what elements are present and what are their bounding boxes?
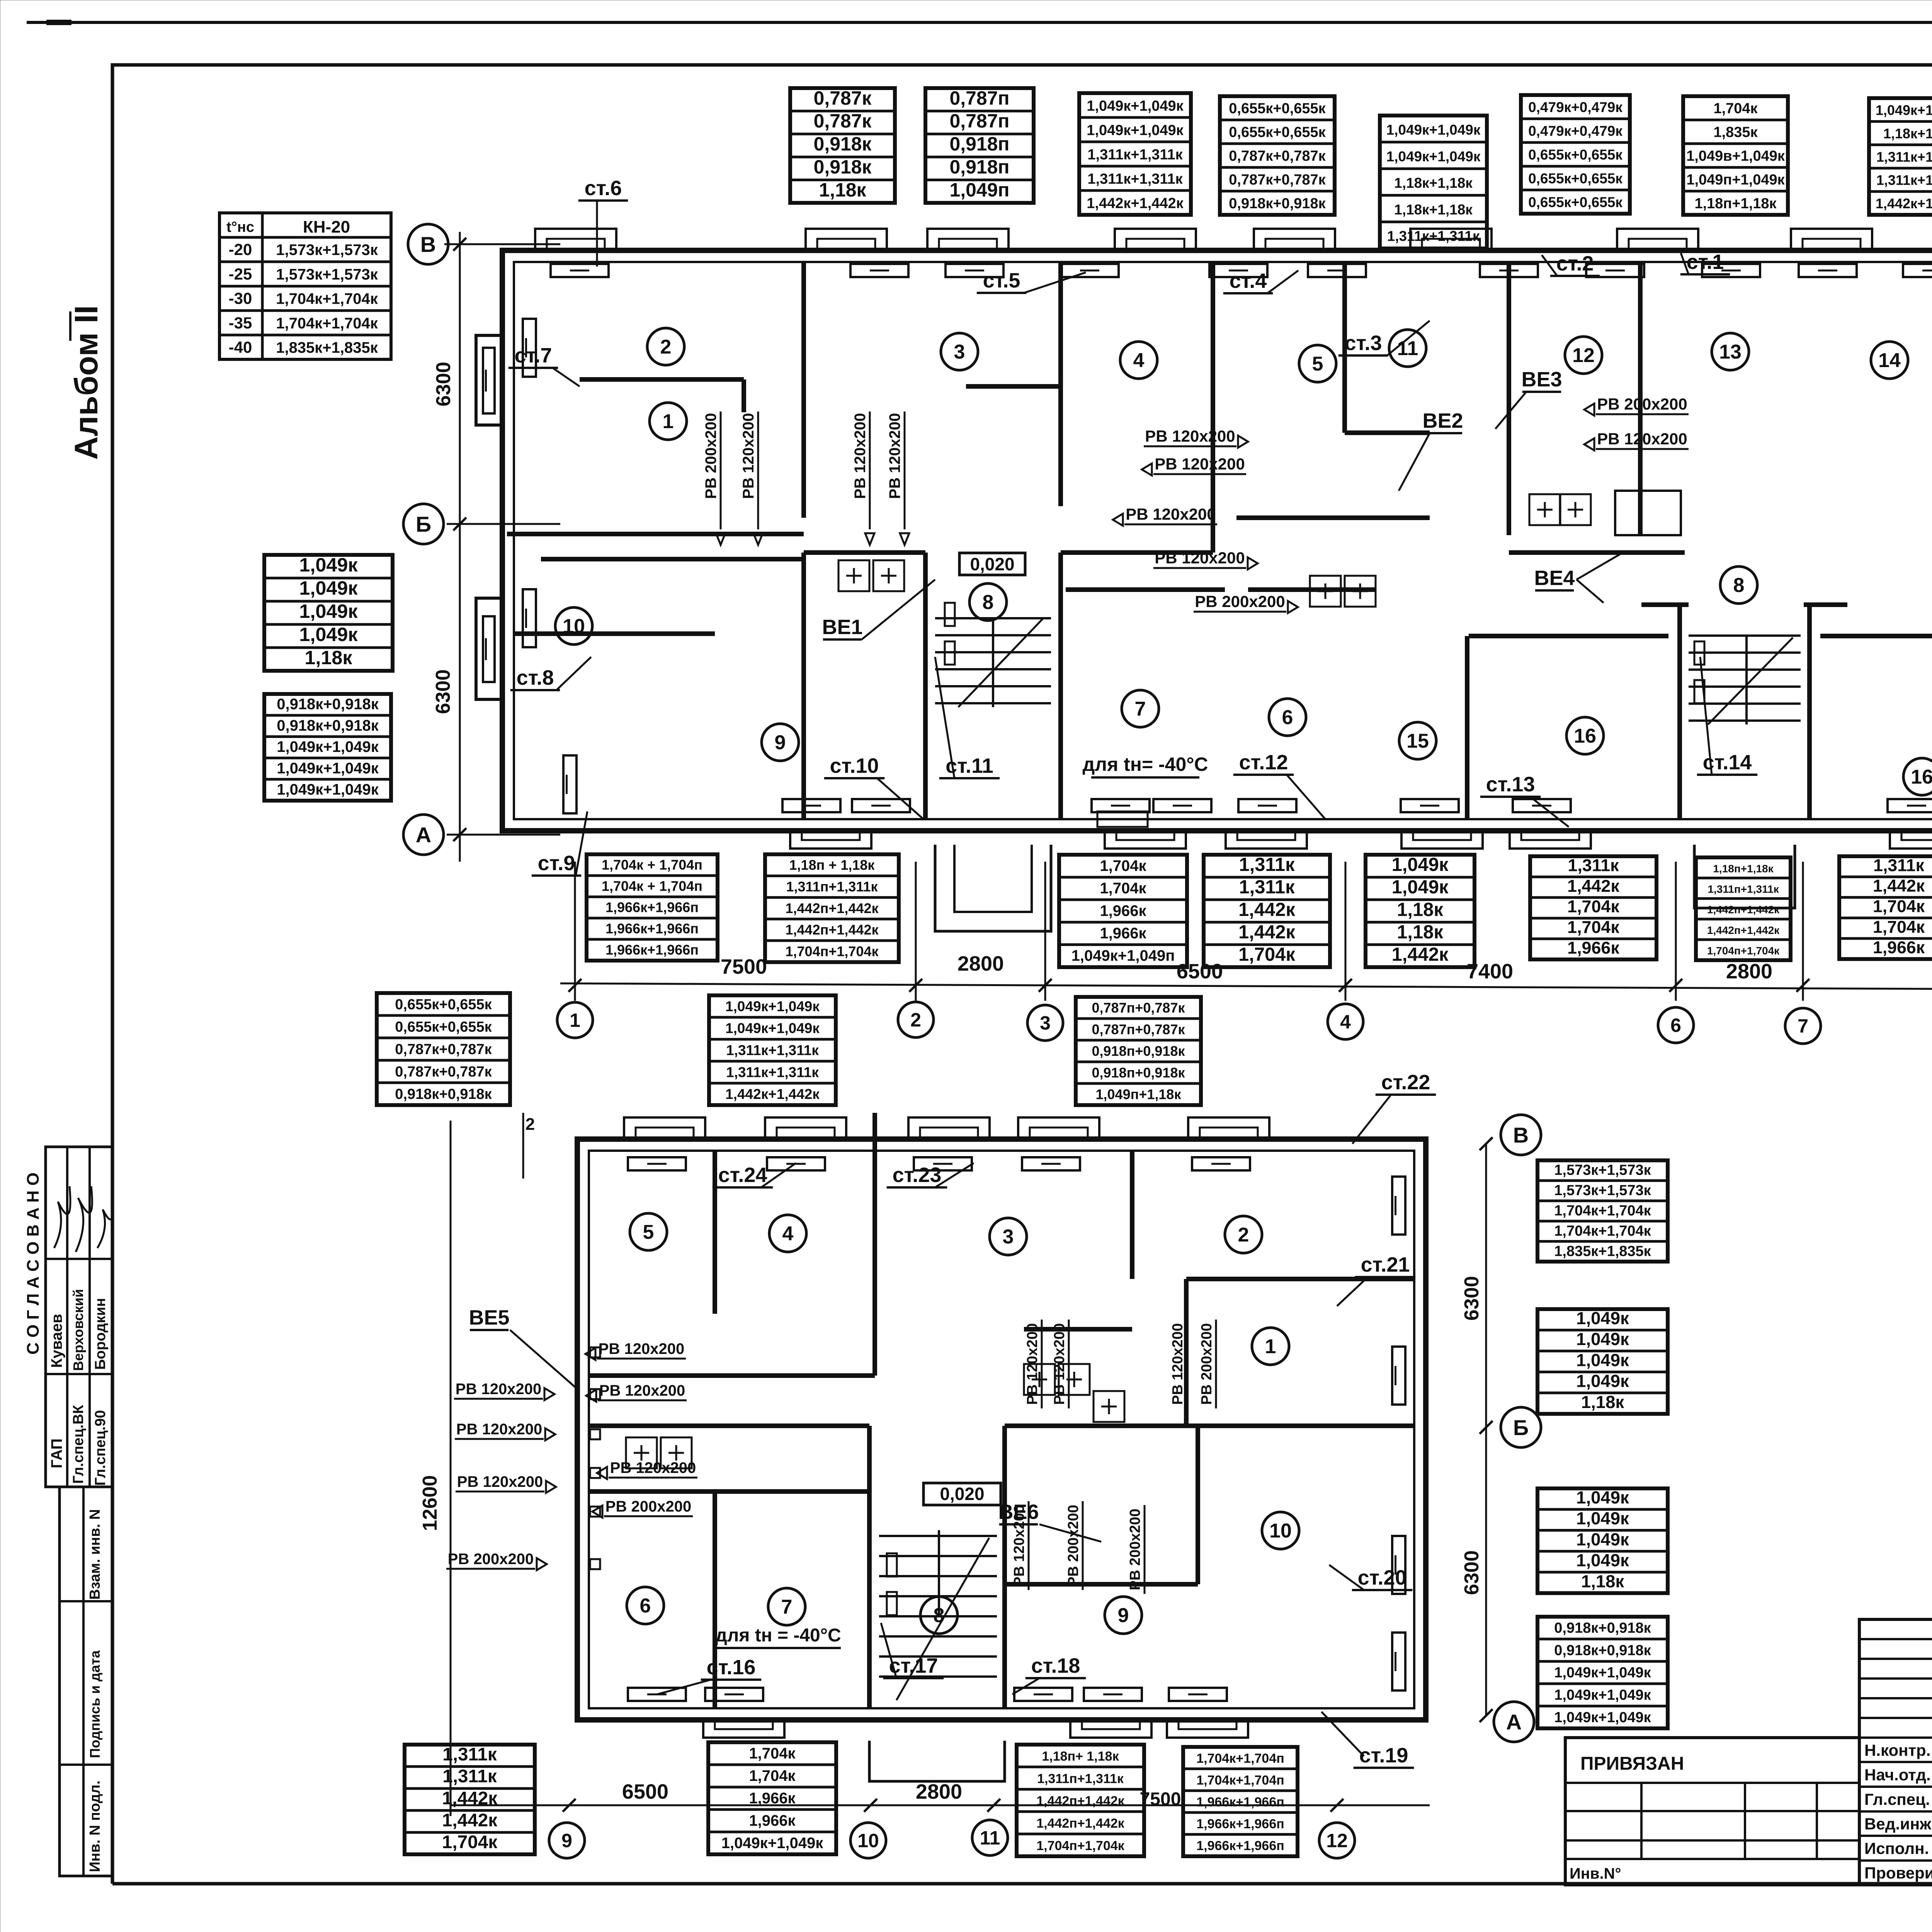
stack st.12 bbox=[1233, 751, 1325, 819]
vent BE5 lower bbox=[469, 1306, 580, 1391]
svg-text:РВ 200х200: РВ 200х200 bbox=[1127, 1509, 1143, 1590]
lower room 2 bbox=[1225, 1216, 1262, 1253]
svg-text:Гл.спец.90: Гл.спец.90 bbox=[92, 1410, 109, 1486]
stack st.10 bbox=[824, 754, 923, 819]
upper interior wall bbox=[923, 553, 928, 819]
svg-text:6300: 6300 bbox=[1461, 1276, 1483, 1321]
table TQ 1,311k bbox=[1839, 856, 1932, 959]
stack st.7 bbox=[509, 344, 580, 386]
svg-text:1,049к: 1,049к bbox=[299, 554, 358, 576]
svg-text:8: 8 bbox=[934, 1604, 945, 1627]
svg-text:1,311п+1,311к: 1,311п+1,311к bbox=[1708, 883, 1779, 895]
svg-text:1,442к: 1,442к bbox=[1567, 876, 1619, 896]
lower interior wall bbox=[1005, 1582, 1198, 1587]
upper window niche top bbox=[1115, 229, 1196, 250]
upper window niche bottom bbox=[1890, 831, 1932, 849]
radiator bbox=[1586, 264, 1644, 277]
lower window niche bottom bbox=[703, 1720, 784, 1738]
svg-text:6: 6 bbox=[1282, 706, 1293, 729]
stair flight upper-left bbox=[935, 603, 1051, 707]
svg-text:14: 14 bbox=[1878, 349, 1901, 372]
svg-text:Исполн.: Исполн. bbox=[1864, 1839, 1929, 1857]
svg-text:ст.20: ст.20 bbox=[1358, 1566, 1407, 1589]
lower plan outer wall bbox=[577, 1139, 1426, 1720]
svg-text:ВЕ5: ВЕ5 bbox=[469, 1306, 509, 1329]
axis stem bbox=[915, 862, 917, 1001]
upper interior wall bbox=[1061, 550, 1213, 555]
svg-text:12600: 12600 bbox=[419, 1475, 441, 1531]
svg-text:РВ 120х200: РВ 120х200 bbox=[457, 1473, 543, 1490]
radiator bbox=[1513, 799, 1571, 812]
radiator bbox=[852, 799, 910, 812]
axis circle A left bbox=[403, 815, 466, 855]
svg-text:1,704к+1,704п: 1,704к+1,704п bbox=[1196, 1751, 1284, 1766]
svg-text:ВЕ4: ВЕ4 bbox=[1534, 566, 1575, 590]
radiator bbox=[1092, 799, 1150, 812]
table V1 1,573 bbox=[1537, 1160, 1668, 1262]
svg-text:2: 2 bbox=[526, 1115, 535, 1134]
dim tick lower bbox=[864, 1799, 877, 1812]
bay window left bottom bbox=[476, 598, 502, 699]
svg-text:РВ 120х200: РВ 120х200 bbox=[1145, 427, 1235, 445]
radiator bbox=[767, 1157, 825, 1170]
svg-text:РВ 120х200: РВ 120х200 bbox=[886, 413, 903, 499]
stack st.19 bbox=[1321, 1712, 1414, 1768]
svg-text:0,918к+0,918к: 0,918к+0,918к bbox=[277, 696, 379, 713]
svg-text:1,442к: 1,442к bbox=[1392, 944, 1449, 965]
svg-text:15: 15 bbox=[1406, 730, 1429, 752]
table TE 1,049 bbox=[1380, 116, 1487, 248]
upper window niche top bbox=[1791, 229, 1872, 250]
svg-text:РВ 120х200: РВ 120х200 bbox=[456, 1421, 542, 1438]
svg-text:4: 4 bbox=[1133, 349, 1145, 372]
svg-text:1,966к: 1,966к bbox=[1100, 925, 1146, 942]
svg-text:1,966к: 1,966к bbox=[749, 1790, 796, 1807]
svg-text:1,049к+1,049к: 1,049к+1,049к bbox=[1554, 1709, 1651, 1726]
stack st.24 bbox=[713, 1163, 796, 1187]
axis circle B left bbox=[408, 224, 466, 264]
svg-text:0,655к+0,655к: 0,655к+0,655к bbox=[395, 1019, 492, 1035]
svg-text:ст.8: ст.8 bbox=[517, 666, 554, 689]
lower interior wall bbox=[1184, 1279, 1189, 1426]
svg-text:1,442к+1,442к: 1,442к+1,442к bbox=[725, 1086, 820, 1102]
axis 2 bbox=[898, 1002, 934, 1037]
svg-text:РВ 120х200: РВ 120х200 bbox=[599, 1382, 685, 1399]
svg-text:7: 7 bbox=[781, 1596, 793, 1618]
table T2 1,049 bbox=[264, 554, 393, 671]
svg-text:1,442п+1,442к: 1,442п+1,442к bbox=[1036, 1794, 1125, 1808]
upper interior wall bbox=[580, 377, 744, 382]
svg-text:ст.13: ст.13 bbox=[1486, 773, 1535, 796]
radiator bbox=[1238, 799, 1296, 812]
svg-text:1,966к+1,966п: 1,966к+1,966п bbox=[605, 942, 699, 958]
radiator bbox=[914, 1157, 972, 1170]
svg-text:13: 13 bbox=[1719, 341, 1742, 363]
table V2 1,049k bbox=[1537, 1308, 1668, 1414]
svg-text:РВ 120х200: РВ 120х200 bbox=[1011, 1505, 1027, 1586]
vent BE3 bbox=[1495, 368, 1562, 429]
svg-text:РВ 200х200: РВ 200х200 bbox=[702, 413, 719, 499]
lower room 10 bbox=[1262, 1512, 1299, 1549]
fixture mark bbox=[1345, 576, 1376, 607]
svg-text:1,049к: 1,049к bbox=[1576, 1551, 1629, 1570]
upper interior wall bbox=[1236, 515, 1430, 520]
lower room 7 bbox=[768, 1588, 805, 1625]
lower interior wall bbox=[1196, 1426, 1200, 1584]
svg-text:1,704к: 1,704к bbox=[1100, 880, 1146, 897]
svg-text:1,704к: 1,704к bbox=[1567, 896, 1619, 916]
svg-text:1,311к+1,311к: 1,311к+1,311к bbox=[1087, 171, 1183, 187]
page top border bbox=[27, 21, 1932, 24]
radiator bbox=[1401, 799, 1459, 812]
svg-text:1,573к+1,573к: 1,573к+1,573к bbox=[276, 241, 378, 259]
vent BE1 bbox=[822, 580, 935, 639]
svg-text:2: 2 bbox=[660, 336, 672, 358]
table U1 0,655 bbox=[377, 993, 510, 1105]
svg-text:1,704к+1,704к: 1,704к+1,704к bbox=[1554, 1203, 1651, 1219]
svg-text:Подпись и дата: Подпись и дата bbox=[87, 1650, 103, 1758]
stack st.6 bbox=[578, 177, 628, 267]
svg-text:7: 7 bbox=[1798, 1015, 1808, 1037]
radiator bbox=[1169, 1688, 1227, 1701]
dim line bottom lower bbox=[451, 1804, 1430, 1806]
svg-text:1,704к: 1,704к bbox=[1238, 944, 1295, 965]
svg-text:0,787к+0,787к: 0,787к+0,787к bbox=[395, 1064, 492, 1080]
table TF 0,479 bbox=[1521, 95, 1630, 214]
svg-text:РВ 200х200: РВ 200х200 bbox=[1199, 1323, 1215, 1405]
upper window niche top bbox=[1617, 229, 1698, 250]
svg-text:3: 3 bbox=[1003, 1226, 1014, 1248]
svg-text:РВ 120х200: РВ 120х200 bbox=[1170, 1323, 1186, 1405]
svg-text:1,311к+1,311к: 1,311к+1,311к bbox=[726, 1042, 819, 1058]
elevation box 0,020 upper bbox=[959, 553, 1025, 575]
svg-text:ГАП: ГАП bbox=[48, 1439, 65, 1468]
axis line left lower bbox=[450, 1121, 452, 1816]
svg-text:1,966к+1,966п: 1,966к+1,966п bbox=[605, 900, 699, 915]
svg-text:1,049к+1,049к: 1,049к+1,049к bbox=[1876, 102, 1932, 118]
dim tick bbox=[1339, 979, 1352, 992]
svg-text:0,918к: 0,918к bbox=[814, 156, 872, 178]
svg-text:1,049п: 1,049п bbox=[950, 179, 1010, 201]
radiator bbox=[1061, 264, 1119, 277]
svg-text:1,049к+1,049к: 1,049к+1,049к bbox=[1087, 98, 1184, 114]
svg-text:ст.1: ст.1 bbox=[1687, 250, 1724, 274]
upper interior wall bbox=[1820, 634, 1932, 638]
radiator bbox=[1084, 1688, 1142, 1701]
svg-text:9: 9 bbox=[1118, 1604, 1129, 1627]
svg-text:С О Г Л А С О В А Н О: С О Г Л А С О В А Н О bbox=[24, 1172, 43, 1354]
svg-text:0,787п+0,787к: 0,787п+0,787к bbox=[1092, 1021, 1185, 1037]
stack st.22 bbox=[1352, 1071, 1436, 1144]
porch lower bbox=[869, 1741, 1005, 1781]
lower interior wall bbox=[1186, 1277, 1414, 1281]
svg-text:1,573к+1,573к: 1,573к+1,573к bbox=[1554, 1162, 1651, 1179]
porch upper-right bbox=[1694, 845, 1795, 908]
svg-text:0,787п+0,787к: 0,787п+0,787к bbox=[1092, 1000, 1185, 1015]
svg-text:1,049к+1,049к: 1,049к+1,049к bbox=[277, 781, 379, 798]
svg-text:1,049к: 1,049к bbox=[1576, 1350, 1629, 1370]
lower window niche top bbox=[1188, 1117, 1269, 1139]
svg-text:1,442п+1,442к: 1,442п+1,442к bbox=[786, 900, 879, 916]
upper interior wall bbox=[1465, 636, 1469, 819]
sidebar inventory table bbox=[60, 1487, 112, 1876]
axis circle B2 lower bbox=[1480, 1407, 1541, 1447]
upper window niche top bbox=[1254, 229, 1335, 250]
svg-text:11: 11 bbox=[980, 1827, 1000, 1849]
radiator bbox=[1392, 1347, 1405, 1405]
upper interior wall bbox=[514, 631, 715, 636]
svg-text:0,918к+0,918к: 0,918к+0,918к bbox=[1554, 1620, 1651, 1636]
svg-text:-30: -30 bbox=[229, 289, 252, 308]
radiator bbox=[563, 755, 577, 813]
lower interior wall bbox=[588, 1373, 875, 1378]
svg-text:1,966к: 1,966к bbox=[1873, 938, 1925, 957]
svg-text:РВ 120х200: РВ 120х200 bbox=[599, 1340, 684, 1357]
svg-text:1,311к+1,311к: 1,311к+1,311к bbox=[1087, 146, 1183, 163]
svg-text:ст.7: ст.7 bbox=[515, 344, 552, 367]
upper interior wall bbox=[1509, 550, 1685, 555]
svg-text:1,311п+1,311к: 1,311п+1,311к bbox=[1037, 1771, 1124, 1786]
radiator bbox=[1153, 799, 1211, 812]
svg-text:РВ 120х200: РВ 120х200 bbox=[1155, 549, 1245, 567]
svg-text:А: А bbox=[416, 823, 431, 847]
stack st.2 bbox=[1542, 252, 1600, 276]
table TC 1,049+1,049 bbox=[1079, 93, 1191, 215]
axis 6 bbox=[1658, 1007, 1694, 1043]
table TP 1,18p bbox=[1696, 857, 1791, 960]
radiator bbox=[1022, 1157, 1080, 1170]
svg-text:ст.10: ст.10 bbox=[830, 754, 879, 777]
svg-text:12: 12 bbox=[1326, 1830, 1348, 1852]
svg-text:Н.контр.: Н.контр. bbox=[1864, 1741, 1930, 1759]
svg-text:1,049п+1,049к: 1,049п+1,049к bbox=[1686, 172, 1785, 188]
svg-text:РВ 200х200: РВ 200х200 bbox=[1597, 395, 1687, 413]
room 4 bbox=[1120, 342, 1157, 379]
svg-text:ст.9: ст.9 bbox=[538, 852, 575, 875]
svg-text:1,049к+1,049к: 1,049к+1,049к bbox=[1554, 1665, 1651, 1681]
svg-text:2: 2 bbox=[1238, 1224, 1249, 1246]
svg-text:1,18п+ 1,18к: 1,18п+ 1,18к bbox=[1042, 1749, 1119, 1764]
svg-text:t°нс: t°нс bbox=[226, 219, 254, 235]
dim tick lower bbox=[563, 1799, 576, 1812]
svg-text:1,049к: 1,049к bbox=[299, 600, 358, 622]
svg-text:1,966к: 1,966к bbox=[1100, 902, 1146, 919]
upper window niche top bbox=[806, 229, 887, 250]
svg-text:0,918п+0,918к: 0,918п+0,918к bbox=[1092, 1043, 1185, 1059]
svg-text:0,918к+0,918к: 0,918к+0,918к bbox=[277, 717, 379, 734]
axis 11 lower bbox=[972, 1820, 1008, 1855]
svg-text:Гл.спец.: Гл.спец. bbox=[1864, 1790, 1930, 1808]
stack st.3 bbox=[1338, 321, 1430, 355]
svg-text:Альбом II: Альбом II bbox=[68, 305, 104, 460]
svg-text:0,479к+0,479к: 0,479к+0,479к bbox=[1528, 99, 1622, 115]
upper window niche top bbox=[535, 229, 616, 250]
svg-text:1,049п+1,18к: 1,049п+1,18к bbox=[1096, 1086, 1182, 1102]
table TL 1,704k bbox=[1059, 855, 1187, 967]
axis stem bbox=[574, 862, 576, 1001]
vent BE6 lower bbox=[998, 1500, 1101, 1542]
lower window niche top bbox=[1018, 1117, 1099, 1139]
axis 12 lower bbox=[1319, 1823, 1355, 1858]
dim line bottom upper bbox=[560, 983, 1932, 990]
stack st.20 bbox=[1329, 1565, 1412, 1590]
table TG 1,704 bbox=[1683, 96, 1788, 215]
svg-text:1,049к+1,049п: 1,049к+1,049п bbox=[1071, 947, 1175, 964]
svg-text:ст.23: ст.23 bbox=[893, 1163, 942, 1187]
svg-text:ст.6: ст.6 bbox=[585, 177, 622, 200]
svg-text:0,655к+0,655к: 0,655к+0,655к bbox=[1528, 147, 1622, 163]
svg-text:1,18к+1,18к: 1,18к+1,18к bbox=[1394, 175, 1473, 191]
svg-text:16: 16 bbox=[1574, 725, 1596, 747]
room 9 bbox=[762, 724, 799, 761]
upper interior wall bbox=[507, 532, 804, 536]
svg-text:1,704к: 1,704к bbox=[1873, 897, 1925, 916]
svg-text:1,704к+1,704п: 1,704к+1,704п bbox=[1196, 1773, 1284, 1787]
axis stem bbox=[1802, 862, 1804, 1001]
svg-text:Инв. N подл.: Инв. N подл. bbox=[87, 1781, 103, 1872]
svg-text:1,704к: 1,704к bbox=[1100, 857, 1146, 874]
lower room 4 bbox=[769, 1215, 806, 1252]
svg-text:1,049в+1,049к: 1,049в+1,049к bbox=[1686, 148, 1785, 164]
stack st.5 bbox=[977, 269, 1086, 293]
svg-text:7: 7 bbox=[1135, 698, 1146, 720]
svg-text:1,049к+1,049к: 1,049к+1,049к bbox=[1087, 122, 1184, 138]
svg-text:Б: Б bbox=[416, 512, 431, 536]
axis 1 bbox=[557, 1002, 593, 1038]
svg-text:1,049к: 1,049к bbox=[1576, 1329, 1629, 1349]
radiator bbox=[523, 319, 536, 377]
radiator bbox=[782, 799, 840, 812]
axis 7 bbox=[1785, 1008, 1821, 1044]
svg-text:1,311к: 1,311к bbox=[1873, 856, 1924, 875]
room 11a bbox=[1389, 330, 1426, 367]
svg-text:1,049к+1,049к: 1,049к+1,049к bbox=[277, 738, 379, 755]
svg-text:1,442к: 1,442к bbox=[1238, 899, 1295, 920]
svg-text:1,049к+1,049к: 1,049к+1,049к bbox=[721, 1835, 824, 1852]
svg-text:0,918к+0,918к: 0,918к+0,918к bbox=[1554, 1642, 1651, 1658]
svg-text:0,020: 0,020 bbox=[940, 1484, 984, 1504]
bath cabinet bbox=[1615, 491, 1681, 535]
svg-text:В: В bbox=[420, 232, 436, 257]
svg-text:1,442п+1,442к: 1,442п+1,442к bbox=[1036, 1816, 1125, 1831]
svg-text:1,311к+1,311к: 1,311к+1,311к bbox=[1876, 172, 1932, 188]
upper window niche bottom bbox=[1226, 831, 1307, 849]
title block staff table bbox=[1859, 1619, 1932, 1885]
upper window niche bottom bbox=[1105, 831, 1186, 849]
axis dash B bbox=[444, 243, 560, 245]
lower room 6 bbox=[627, 1587, 664, 1624]
room 8b bbox=[1720, 566, 1757, 604]
svg-text:1,704к+1,704к: 1,704к+1,704к bbox=[276, 315, 378, 332]
axis 4 bbox=[1328, 1004, 1363, 1039]
svg-text:ст.19: ст.19 bbox=[1359, 1744, 1408, 1767]
lower interior wall bbox=[1002, 1426, 1007, 1708]
svg-text:-35: -35 bbox=[229, 314, 252, 332]
svg-text:1,573к+1,573к: 1,573к+1,573к bbox=[1554, 1182, 1651, 1199]
svg-text:0,787к+0,787к: 0,787к+0,787к bbox=[1229, 172, 1326, 188]
svg-text:6500: 6500 bbox=[622, 1780, 668, 1803]
svg-text:1,311к: 1,311к bbox=[1239, 877, 1295, 898]
svg-text:1,704к: 1,704к bbox=[1713, 100, 1758, 117]
svg-text:В: В bbox=[1513, 1123, 1529, 1147]
svg-text:ст.17: ст.17 bbox=[889, 1654, 938, 1677]
dim tick bbox=[1796, 979, 1810, 992]
svg-text:ст.16: ст.16 bbox=[707, 1656, 756, 1679]
svg-text:2800: 2800 bbox=[916, 1780, 962, 1803]
svg-text:ст.12: ст.12 bbox=[1239, 751, 1288, 774]
svg-text:6300: 6300 bbox=[1461, 1550, 1483, 1595]
fixture mark bbox=[1024, 1364, 1055, 1395]
svg-text:7400: 7400 bbox=[1467, 960, 1513, 983]
svg-text:ст.22: ст.22 bbox=[1381, 1071, 1430, 1094]
lower room 1 bbox=[1252, 1328, 1289, 1365]
svg-text:для tн= -40°С: для tн= -40°С bbox=[1083, 753, 1208, 775]
svg-text:5: 5 bbox=[643, 1221, 654, 1243]
svg-text:ст.21: ст.21 bbox=[1361, 1253, 1410, 1276]
svg-text:1,049к: 1,049к bbox=[1576, 1488, 1629, 1507]
svg-text:ст.4: ст.4 bbox=[1230, 269, 1267, 293]
lower room 8 bbox=[920, 1597, 957, 1634]
upper plan outer wall bbox=[502, 250, 1932, 831]
lower interior wall bbox=[872, 1113, 877, 1376]
svg-text:1: 1 bbox=[1265, 1335, 1276, 1358]
lower window niche bottom bbox=[1070, 1720, 1151, 1738]
svg-text:1,966к: 1,966к bbox=[749, 1812, 796, 1829]
svg-text:1,704п+1,704к: 1,704п+1,704к bbox=[1036, 1838, 1125, 1853]
upper interior wall bbox=[1807, 605, 1812, 819]
svg-text:КН-20: КН-20 bbox=[303, 218, 350, 236]
room 7 bbox=[1122, 690, 1159, 727]
stack st.14 bbox=[1697, 657, 1757, 775]
svg-text:1,049к: 1,049к bbox=[1576, 1529, 1629, 1549]
table W3 1,18p bbox=[1017, 1745, 1144, 1856]
svg-text:0,787к: 0,787к bbox=[814, 87, 872, 109]
svg-text:1,442п+1,442к: 1,442п+1,442к bbox=[1707, 904, 1780, 916]
stack st.1 bbox=[1680, 250, 1730, 274]
svg-text:3: 3 bbox=[954, 341, 965, 363]
svg-text:10: 10 bbox=[857, 1830, 879, 1852]
svg-text:1,311к: 1,311к bbox=[1239, 854, 1295, 875]
svg-text:0,787п: 0,787п bbox=[950, 110, 1010, 132]
svg-text:1,049к: 1,049к bbox=[1576, 1371, 1629, 1391]
upper interior wall bbox=[1066, 587, 1225, 592]
fixture mark bbox=[1094, 1391, 1124, 1422]
room 15a bbox=[1399, 722, 1436, 759]
lower interior wall bbox=[588, 1423, 869, 1428]
svg-text:1,704к: 1,704к bbox=[1873, 918, 1925, 937]
svg-text:1,704п+1,704к: 1,704п+1,704к bbox=[1707, 945, 1780, 957]
axis circle A lower bbox=[1480, 1702, 1534, 1742]
axis stem bbox=[1044, 862, 1046, 1001]
svg-text:10: 10 bbox=[1269, 1520, 1292, 1542]
table V3 1,049k bbox=[1537, 1488, 1668, 1593]
radiator bbox=[628, 1688, 686, 1701]
table U3 0,787p bbox=[1076, 997, 1201, 1105]
upper interior wall bbox=[966, 384, 1061, 389]
svg-text:1,18п + 1,18к: 1,18п + 1,18к bbox=[789, 857, 875, 873]
svg-text:1,704п+1,704к: 1,704п+1,704к bbox=[786, 943, 879, 959]
svg-text:1,049к+1,049к: 1,049к+1,049к bbox=[1386, 148, 1481, 164]
upper interior wall bbox=[1507, 262, 1511, 535]
svg-text:1,573к+1,573к: 1,573к+1,573к bbox=[276, 266, 378, 283]
upper interior wall bbox=[1641, 602, 1689, 607]
elevation box 0,020 lower bbox=[923, 1483, 1001, 1505]
svg-text:ВЕ2: ВЕ2 bbox=[1422, 409, 1463, 432]
table U2 1,049 bbox=[709, 995, 836, 1105]
bay window left top bbox=[476, 335, 502, 425]
room 2 bbox=[647, 328, 684, 365]
radiator bbox=[850, 264, 908, 277]
